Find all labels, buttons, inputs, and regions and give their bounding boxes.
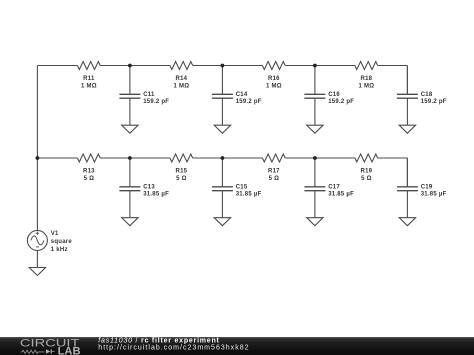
svg-text:1 kHz: 1 kHz (51, 247, 68, 253)
node junction bottom row 2 (221, 156, 225, 160)
svg-text:LAB: LAB (58, 345, 81, 355)
wire (193, 157, 263, 159)
ground under V1 (29, 268, 45, 276)
capacitor C15 (212, 158, 262, 218)
svg-text:159.2 pF: 159.2 pF (143, 99, 169, 105)
svg-text:fas11030 / rc filter experimen: fas11030 / rc filter experiment (98, 338, 219, 345)
resistor R17 (262, 154, 285, 182)
wire (378, 65, 408, 67)
svg-text:1 MΩ: 1 MΩ (266, 84, 282, 90)
capacitor C11 (119, 66, 169, 126)
svg-text:31.85 µF: 31.85 µF (143, 191, 169, 197)
svg-text:C18: C18 (421, 92, 433, 98)
svg-text:1 MΩ: 1 MΩ (81, 84, 97, 90)
svg-text:5 Ω: 5 Ω (269, 176, 280, 182)
resistor R13 (77, 154, 100, 182)
voltage source V1 (27, 230, 72, 253)
svg-text:31.85 µF: 31.85 µF (236, 191, 262, 197)
ground under C11 (122, 125, 138, 133)
wire (36, 66, 38, 231)
svg-text:R16: R16 (268, 76, 280, 82)
resistor R14 (170, 62, 193, 90)
svg-text:31.85 µF: 31.85 µF (421, 191, 447, 197)
wire (37, 157, 77, 159)
svg-text:C19: C19 (421, 184, 433, 190)
svg-text:159.2 pF: 159.2 pF (328, 99, 354, 105)
ground under C14 (214, 125, 230, 133)
capacitor C16 (304, 66, 354, 126)
footer bar (0, 337, 474, 355)
svg-text:R18: R18 (361, 76, 373, 82)
svg-text:159.2 pF: 159.2 pF (236, 99, 262, 105)
svg-text:C13: C13 (143, 184, 155, 190)
svg-text:V1: V1 (51, 231, 59, 237)
ground under C15 (214, 218, 230, 226)
svg-text:R15: R15 (176, 168, 188, 174)
node junction bottom row 3 (313, 156, 317, 160)
resistor R15 (170, 154, 193, 182)
svg-text:C14: C14 (236, 92, 248, 98)
ground under C19 (399, 218, 415, 226)
svg-text:square: square (51, 239, 73, 245)
svg-text:R14: R14 (176, 76, 188, 82)
capacitor C14 (212, 66, 262, 126)
wire (36, 250, 38, 267)
capacitor C19 (397, 158, 447, 218)
node junction top row 3 (313, 64, 317, 68)
wire (406, 66, 408, 95)
CircuitLab logo (20, 337, 81, 355)
ground under C18 (399, 125, 415, 133)
svg-text:1 MΩ: 1 MΩ (173, 84, 189, 90)
resistor R19 (355, 154, 378, 182)
wire (285, 157, 355, 159)
svg-text:31.85 µF: 31.85 µF (328, 191, 354, 197)
svg-text:C17: C17 (328, 184, 340, 190)
node junction bottom row 0 (36, 156, 40, 160)
resistor R11 (77, 62, 100, 90)
svg-text:R17: R17 (268, 168, 280, 174)
svg-text:5 Ω: 5 Ω (84, 176, 95, 182)
svg-text:R19: R19 (361, 168, 373, 174)
svg-text:C15: C15 (236, 184, 248, 190)
wire (37, 65, 77, 67)
ground under C13 (122, 218, 138, 226)
svg-text:C16: C16 (328, 92, 340, 98)
wire (378, 157, 408, 159)
svg-text:159.2 pF: 159.2 pF (421, 99, 447, 105)
svg-text:5 Ω: 5 Ω (361, 176, 372, 182)
node junction top row 2 (221, 64, 225, 68)
node junction top row 1 (128, 64, 132, 68)
wire (100, 157, 170, 159)
capacitor C13 (119, 158, 169, 218)
svg-text:R13: R13 (83, 168, 95, 174)
capacitor C17 (304, 158, 354, 218)
node junction bottom row 1 (128, 156, 132, 160)
svg-text:R11: R11 (83, 76, 95, 82)
resistor R18 (355, 62, 378, 90)
capacitor C18 (397, 66, 447, 126)
wire (100, 65, 170, 67)
wire (193, 65, 263, 67)
svg-text:C11: C11 (143, 92, 155, 98)
resistor R16 (262, 62, 285, 90)
svg-text:http://circuitlab.com/c23mm563: http://circuitlab.com/c23mm563hxk82 (98, 345, 249, 352)
ground under C17 (307, 218, 323, 226)
footer text (98, 338, 249, 352)
svg-text:5 Ω: 5 Ω (176, 176, 187, 182)
svg-text:1 MΩ: 1 MΩ (358, 84, 374, 90)
wire (285, 65, 355, 67)
ground under C16 (307, 125, 323, 133)
wire (406, 158, 408, 187)
